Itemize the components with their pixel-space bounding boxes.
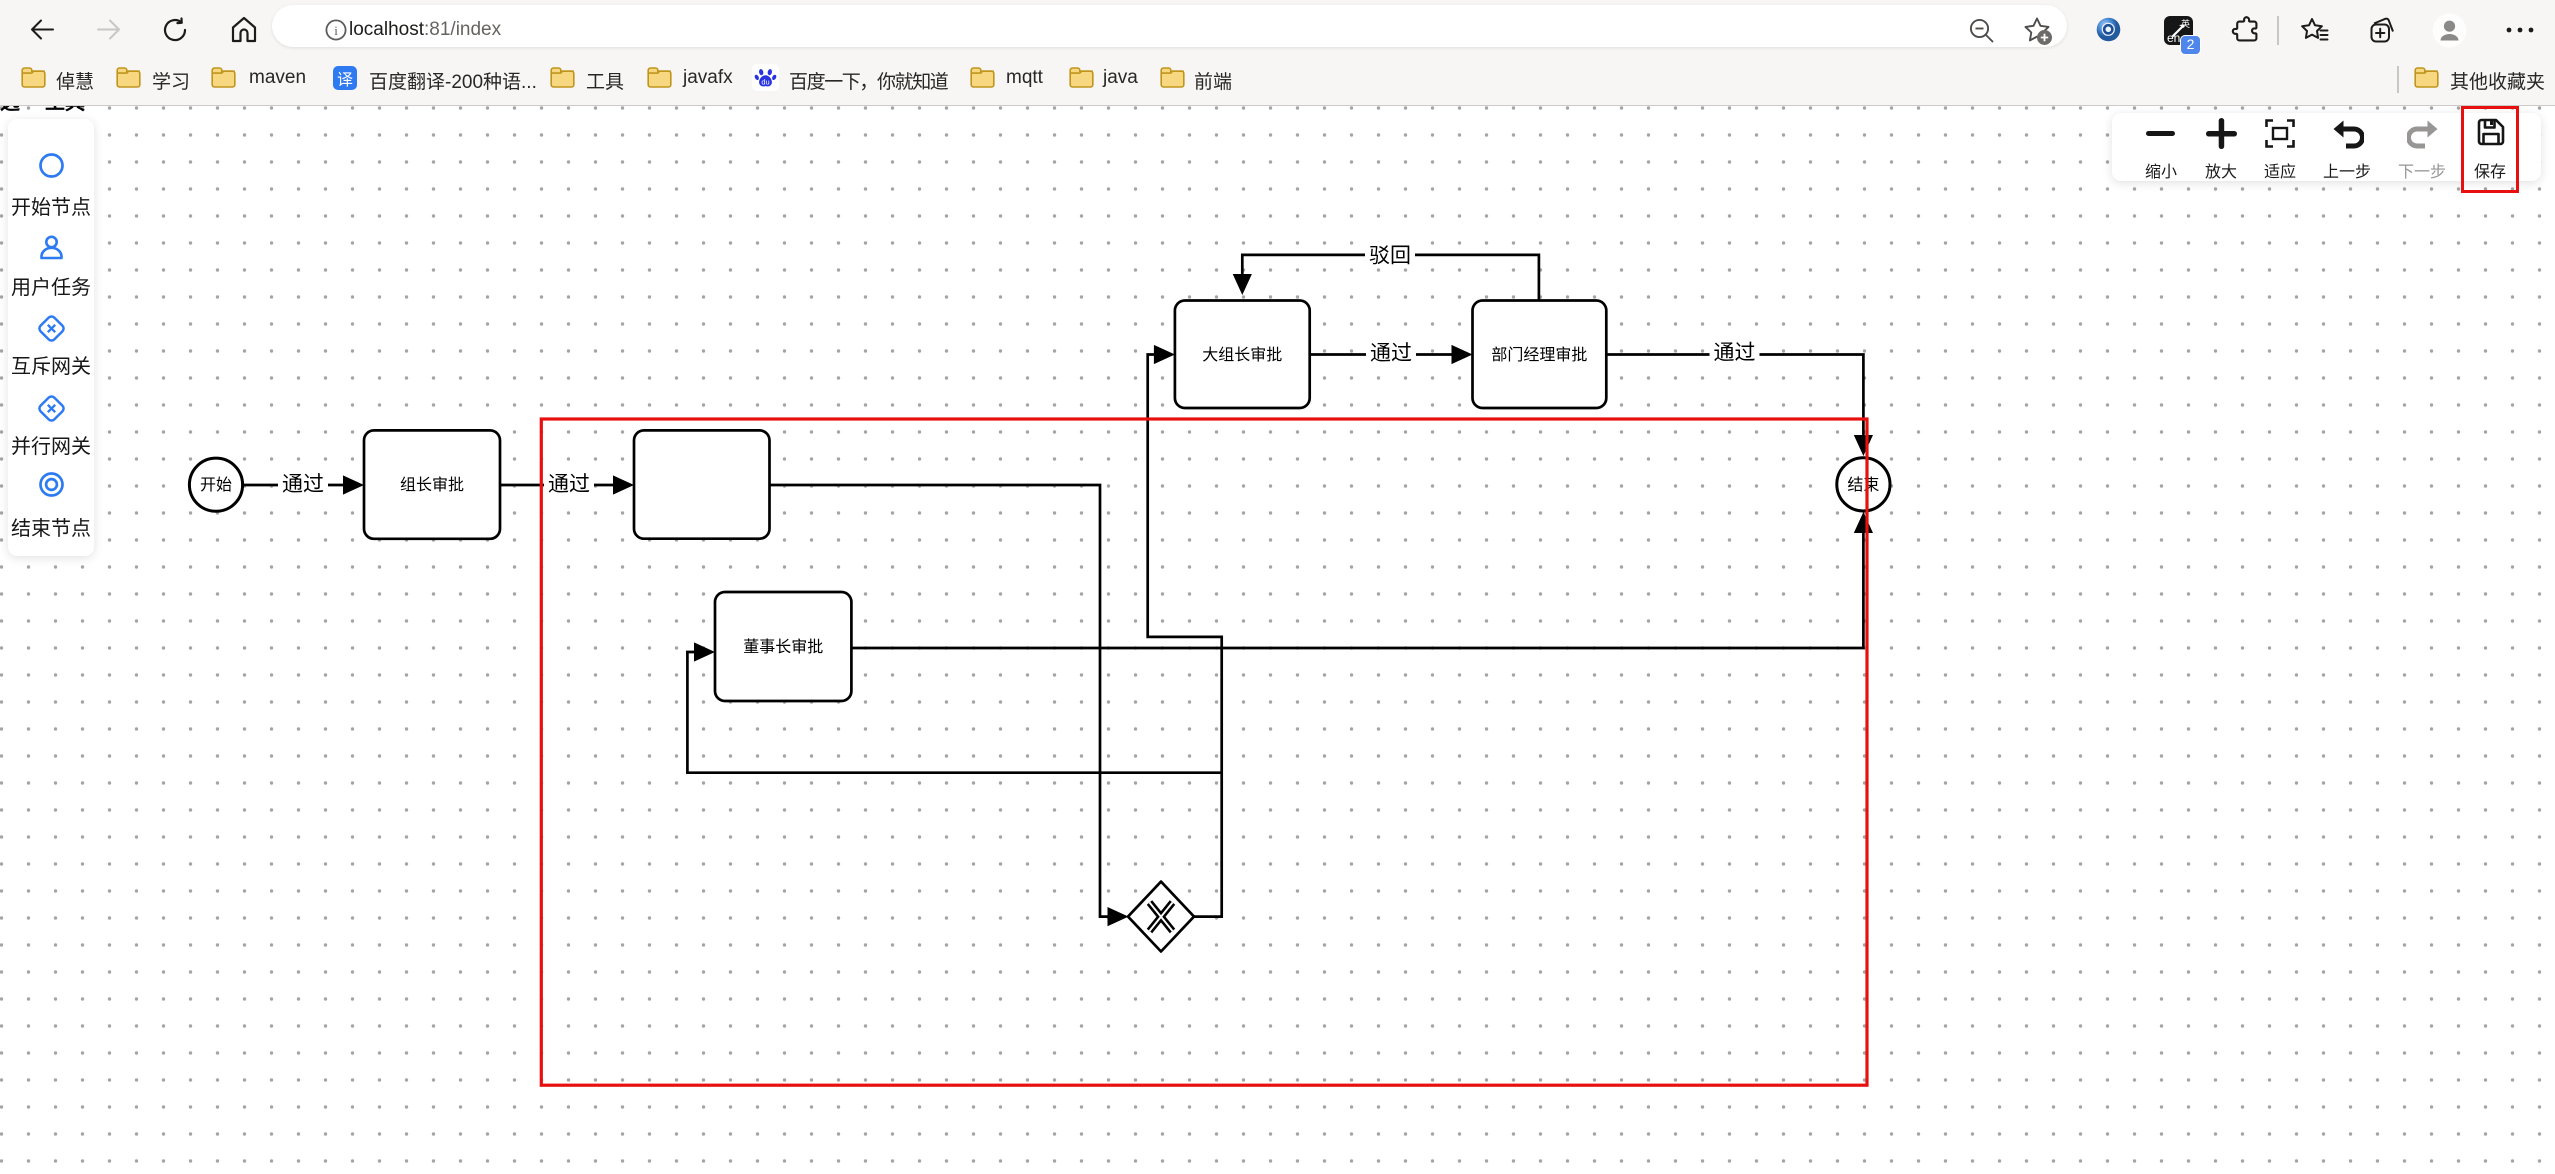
top toolbar panel (2112, 113, 2542, 182)
svg-text:董事长审批: 董事长审批 (743, 638, 823, 656)
favorites hub star (2300, 16, 2330, 46)
refresh button (162, 17, 188, 43)
add favorite star (2023, 16, 2053, 46)
node: 部门经理审批 box (1473, 301, 1607, 409)
left node palette panel (8, 119, 94, 557)
separator (2277, 16, 2279, 45)
partial clipped text at page top (0, 93, 20, 113)
toolbar save icon 保存 (2477, 118, 2505, 146)
home button (231, 16, 257, 43)
edge label 通过 (544, 470, 594, 497)
baidu fanyi icon (333, 66, 357, 90)
bookmark folder icon (21, 67, 46, 88)
bookmark folder icon (550, 67, 575, 88)
node: 大组长审批 box (1175, 301, 1310, 409)
en translate extension (2164, 16, 2193, 45)
palette exclusive gateway icon (37, 314, 66, 343)
forward button (disabled) (96, 17, 121, 42)
address bar pill (272, 5, 2067, 47)
zoom-out icon (1968, 17, 1995, 44)
wire: start to 组长审批 (243, 484, 345, 487)
wire: 部门经理审批 to 结束 (1606, 355, 1863, 437)
baidu paw icon (752, 64, 779, 91)
palette parallel gateway icon (37, 394, 66, 423)
badge 2 (2180, 35, 2201, 55)
svg-text:结束: 结束 (1847, 476, 1879, 494)
node: 组长审批 box (364, 430, 500, 538)
other favorites folder (2414, 67, 2439, 88)
extensions puzzle icon (2231, 16, 2259, 44)
palette user task icon (38, 234, 65, 261)
svg-text:du: du (761, 78, 769, 87)
bookmark folder icon (647, 67, 672, 88)
svg-text:开始: 开始 (200, 476, 232, 494)
info icon (325, 19, 347, 41)
bookmark folder icon (211, 67, 236, 88)
menu dots (2505, 26, 2537, 34)
palette end node icon (39, 472, 64, 497)
toolbar redo icon 下一步 (disabled) (2407, 119, 2439, 149)
url text (349, 18, 501, 42)
svg-text:i: i (334, 23, 338, 38)
svg-text:部门经理审批: 部门经理审批 (1491, 346, 1587, 364)
back button (30, 17, 55, 42)
wire: 董事长审批 to 结束 (851, 533, 1863, 648)
svg-text:大组长审批: 大组长审批 (1202, 346, 1282, 364)
svg-text:组长审批: 组长审批 (400, 476, 464, 494)
svg-text:en: en (2167, 31, 2180, 45)
wire: X gateway branch to 董事长审批 (687, 652, 1221, 773)
toolbar undo icon 上一步 (2332, 119, 2364, 149)
svg-text:通过: 通过 (1370, 342, 1412, 365)
toolbar zoom out icon 缩小 (2146, 129, 2176, 138)
bookmark folder icon (1069, 67, 1094, 88)
red selection rectangle (541, 419, 1867, 1085)
node: end circle 结束 (1837, 458, 1890, 511)
svg-text:通过: 通过 (548, 473, 590, 496)
node: empty task box (634, 430, 770, 538)
bookmark folder icon (116, 67, 141, 88)
red highlight box around save (2461, 106, 2518, 193)
blue swirl extension (2096, 17, 2121, 42)
edge label 驳回 (1365, 241, 1415, 268)
palette start node icon (39, 153, 64, 178)
collections icon (2367, 15, 2397, 45)
svg-text:通过: 通过 (1714, 341, 1756, 364)
svg-text:通过: 通过 (282, 473, 324, 496)
svg-text:驳回: 驳回 (1369, 244, 1411, 267)
wire: 组长审批 to empty task (500, 484, 615, 487)
edge label 通过 (1366, 339, 1416, 366)
bookmark folder icon (1160, 67, 1185, 88)
toolbar fit icon 适应 (2265, 119, 2295, 148)
other favorites (2397, 66, 2399, 93)
wire: empty task to X gateway (769, 485, 1109, 917)
node: X exclusive gateway (1128, 882, 1194, 952)
node: 董事长审批 box (715, 592, 851, 701)
profile avatar (0, 0, 1, 1)
wire: 驳回 loop 部门经理审批 to 大组长审批 (1242, 255, 1539, 301)
node: start circle 开始 (189, 458, 242, 511)
wire: X gateway to 大组长审批 (1148, 355, 1222, 917)
wire: 大组长审批 to 部门经理审批 (1310, 353, 1453, 356)
edge label 通过 (278, 470, 328, 497)
edge label 通过 (1710, 339, 1760, 366)
toolbar zoom in icon 放大 (2206, 118, 2237, 149)
bookmark folder icon (970, 67, 995, 88)
